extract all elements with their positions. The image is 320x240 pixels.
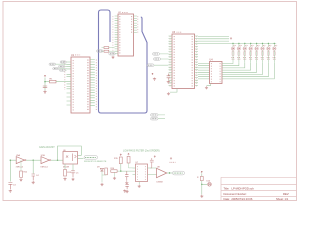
power flag +5V	[152, 73, 154, 75]
node LED column 2 junction	[238, 43, 239, 44]
resistor R5	[237, 50, 240, 62]
wires U3 to U4	[198, 64, 210, 79]
wires to U1 left pins	[56, 62, 67, 70]
wire	[102, 171, 106, 182]
svg-text:74HC14: 74HC14	[40, 167, 48, 169]
resistor R6	[243, 50, 246, 62]
svg-text:REV:: REV:	[283, 192, 289, 196]
wire LED bus	[231, 42, 277, 44]
net label N9	[154, 58, 161, 61]
U3 left pins	[169, 36, 173, 85]
ground	[153, 78, 156, 81]
U2 left pins	[115, 16, 118, 54]
wire	[232, 43, 234, 46]
resistor R18	[197, 176, 203, 180]
capacitor C3 (input)	[8, 183, 16, 190]
label	[170, 161, 176, 163]
ground	[43, 91, 46, 94]
U1 right pins	[90, 60, 95, 106]
svg-text:74HC14: 74HC14	[16, 167, 24, 169]
net label N8	[153, 53, 160, 56]
wire	[273, 43, 275, 46]
svg-text:U5B: U5B	[41, 155, 46, 157]
ground	[125, 181, 128, 184]
U2 right pins	[134, 16, 137, 33]
ground	[167, 92, 170, 95]
label D5	[257, 45, 260, 47]
svg-text:6N138: 6N138	[63, 166, 70, 168]
ground	[100, 183, 103, 186]
LED D6	[261, 45, 265, 50]
svg-text:GAIN ADJUST: GAIN ADJUST	[39, 146, 55, 149]
svg-text:LOW PASS FILTER (2nd ORDER): LOW PASS FILTER (2nd ORDER)	[123, 149, 160, 152]
resistor R16	[111, 168, 118, 173]
power flag +5V	[120, 154, 122, 156]
LED D2	[237, 45, 241, 50]
wire	[250, 43, 252, 46]
resistor R13	[64, 170, 72, 177]
wire	[129, 163, 133, 168]
wire	[20, 160, 22, 171]
wire	[114, 172, 116, 176]
power flag +5V	[128, 153, 130, 155]
power flag +5V	[154, 156, 156, 158]
node C	[57, 160, 58, 161]
label D6	[263, 45, 266, 47]
wire output	[78, 158, 84, 160]
inverter U5A	[16, 154, 27, 169]
wire	[238, 43, 240, 46]
resistor R10	[267, 50, 270, 62]
svg-text:Sheet: 1/1: Sheet: 1/1	[276, 197, 289, 201]
ground	[126, 190, 129, 193]
resistor R3	[104, 50, 109, 52]
capacitor C7	[150, 158, 154, 168]
resistor R17	[127, 156, 130, 163]
power flag +5V	[170, 158, 172, 160]
net label N7	[109, 53, 116, 55]
net label AUDIO	[84, 156, 98, 160]
net label N11	[151, 114, 159, 117]
ground	[9, 190, 12, 193]
svg-text:U5A: U5A	[16, 154, 21, 157]
resistor R9	[261, 50, 264, 62]
net label N6	[97, 50, 104, 52]
wire	[151, 168, 157, 175]
svg-text:Title: LP-MIDI-IPOD.sch: Title: LP-MIDI-IPOD.sch	[224, 186, 255, 190]
ground	[205, 86, 208, 89]
capacitor C8	[125, 184, 128, 189]
resistor R8	[255, 50, 258, 62]
wire	[110, 164, 135, 172]
U3 right pins	[195, 36, 199, 85]
module outline J1 (iPod dock connector board)	[99, 10, 148, 113]
svg-text:Date: 2005/07/24 23:06: Date: 2005/07/24 23:06	[224, 197, 253, 201]
net label N5	[59, 69, 65, 71]
inverter U5B	[40, 155, 51, 169]
net label N4	[59, 65, 65, 67]
wire audio input	[10, 160, 16, 181]
LED D5	[255, 45, 259, 50]
LED D10	[207, 181, 212, 187]
resistor R12	[20, 171, 28, 177]
ground	[138, 185, 141, 188]
node LED column 3 junction	[244, 43, 245, 44]
label D8	[275, 45, 278, 47]
label D4	[251, 45, 254, 47]
node LED column 5 junction	[256, 43, 257, 44]
wire U3 gnd	[170, 89, 177, 93]
node LED column 7 junction	[268, 43, 269, 44]
resistor R14	[105, 168, 108, 175]
ground	[63, 178, 66, 181]
ground	[19, 178, 22, 181]
capacitor C1	[43, 86, 47, 88]
wire output	[167, 172, 172, 174]
LED D8	[273, 45, 277, 50]
wires	[158, 115, 165, 119]
ground	[123, 190, 126, 193]
wire	[65, 164, 73, 170]
IC U7	[133, 162, 151, 181]
title block	[221, 177, 297, 201]
ground	[200, 195, 203, 198]
wires	[154, 54, 169, 65]
wires LED columns to U4	[225, 63, 274, 79]
LED D3	[243, 45, 247, 50]
label D3	[245, 45, 248, 47]
ground	[32, 181, 35, 184]
ground	[111, 56, 114, 59]
wire	[138, 182, 140, 185]
svg-text:FROM IPOD REMOTE: FROM IPOD REMOTE	[84, 161, 107, 163]
node LED column 1 junction	[232, 43, 233, 44]
IC U3	[170, 31, 197, 89]
wire	[244, 43, 246, 46]
ground	[167, 81, 170, 84]
net label N3	[53, 68, 59, 70]
resistor R7	[249, 50, 252, 62]
U1 left pins	[67, 62, 72, 105]
capacitor C5	[71, 171, 79, 177]
wire	[201, 173, 203, 176]
svg-text:LM358: LM358	[157, 181, 164, 183]
wires U3 top bus	[198, 37, 231, 44]
wire	[32, 160, 34, 174]
resistor R1	[50, 79, 57, 83]
label D7	[269, 45, 272, 47]
ground	[113, 177, 116, 180]
label D1	[233, 45, 236, 47]
diode D9	[97, 166, 104, 171]
resistor R11	[273, 50, 276, 62]
node LED column 4 junction	[250, 43, 251, 44]
svg-text:Document Number:: Document Number:	[224, 192, 248, 196]
resistor R15	[114, 157, 122, 164]
node B	[33, 160, 34, 161]
net label N12	[151, 117, 159, 120]
wire	[267, 43, 269, 46]
wire	[51, 159, 63, 161]
opto-coupler U6	[63, 150, 78, 169]
U4 right pins	[222, 64, 225, 79]
wire	[202, 181, 207, 195]
power flag +5V	[44, 75, 46, 77]
op-amp U8	[157, 167, 167, 184]
net label N10	[147, 64, 154, 67]
wire node A	[45, 78, 67, 91]
capacitor C6	[125, 171, 128, 181]
node LED column 8 junction	[274, 43, 275, 44]
wire	[262, 43, 264, 46]
LED D1	[231, 45, 235, 50]
power flag +5V	[201, 171, 203, 173]
power flag +5V LED bus	[230, 38, 232, 40]
wires	[102, 48, 115, 52]
resistor R4	[231, 50, 234, 62]
ground	[71, 178, 74, 181]
node LED column 6 junction	[262, 43, 263, 44]
wire	[26, 159, 41, 161]
wire	[256, 43, 258, 46]
net label N2	[60, 61, 66, 63]
capacitor C2	[167, 74, 170, 80]
resistor R2	[104, 47, 109, 49]
IC U4	[210, 59, 223, 84]
wire feedback loop	[58, 146, 82, 160]
capacitor C4	[32, 174, 40, 181]
net label OUT	[173, 171, 185, 175]
wire U4 gnd	[207, 84, 211, 86]
net label N1	[49, 63, 56, 65]
IC U1	[65, 54, 97, 113]
LED D7	[267, 45, 271, 50]
label D2	[239, 45, 242, 47]
IC U2	[113, 12, 138, 56]
LED D4	[249, 45, 253, 50]
